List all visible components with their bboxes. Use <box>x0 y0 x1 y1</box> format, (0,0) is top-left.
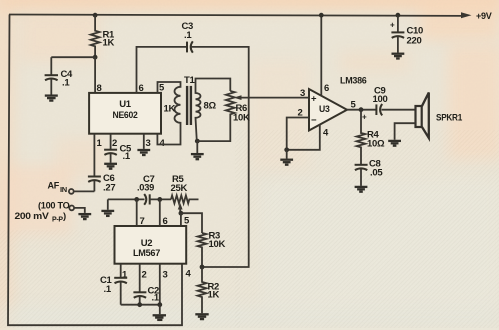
node output/R4 <box>359 107 364 112</box>
IC U2 LM567 <box>115 216 192 281</box>
svg-text:2: 2 <box>112 138 117 149</box>
wire U2 pin 3 down <box>159 264 161 305</box>
node R1/C4/pin8 junction <box>93 55 98 60</box>
ground U1 pin 3 <box>137 150 150 155</box>
node rail/R1 <box>93 13 98 18</box>
svg-text:1K: 1K <box>103 38 115 49</box>
ground U2 pin 3 <box>153 305 166 320</box>
ground C4 <box>45 96 58 101</box>
resistor R2 <box>198 267 220 313</box>
node rail/pin6 <box>319 13 324 18</box>
svg-text:U3: U3 <box>319 104 330 115</box>
svg-text:.1: .1 <box>123 151 131 162</box>
ground U3 <box>280 150 293 165</box>
ground T1 secondary <box>191 141 204 159</box>
svg-text:+: + <box>362 113 367 122</box>
wire U1 pin 3 to ground <box>143 134 145 149</box>
svg-text:P-P: P-P <box>52 217 63 224</box>
wire U3 pin 6 to rail <box>320 15 322 96</box>
node R3/R2/C3 <box>200 265 205 270</box>
wire wiper node to U2 pin 5 <box>180 213 182 226</box>
wire U2 pin 1 to C1 <box>120 264 122 278</box>
ground C5 <box>104 164 117 169</box>
svg-text:.1: .1 <box>184 30 192 41</box>
R5 wiper arrow <box>178 203 183 213</box>
svg-text:1K: 1K <box>208 290 220 301</box>
capacitor C8 <box>355 159 384 186</box>
capacitor C5 <box>104 144 132 163</box>
svg-text:6: 6 <box>139 83 144 94</box>
svg-text:LM386: LM386 <box>340 76 367 87</box>
ground R2 <box>195 314 208 319</box>
svg-text:U1: U1 <box>119 99 132 110</box>
svg-text:8: 8 <box>97 83 102 94</box>
svg-text:6: 6 <box>324 83 329 94</box>
capacitor C10 <box>390 15 423 52</box>
svg-text:−: − <box>311 115 317 126</box>
svg-text:100: 100 <box>373 94 388 105</box>
node U2 pin 6 <box>157 197 162 202</box>
capacitor C4 <box>45 57 73 94</box>
wire U1 pin 1 to C6 <box>93 134 95 176</box>
ground C8 <box>355 187 368 192</box>
svg-text:(100 TO: (100 TO <box>38 201 70 212</box>
svg-text:+9V: +9V <box>476 11 492 22</box>
svg-text:SPKR1: SPKR1 <box>436 113 463 124</box>
AF IN terminal <box>48 181 95 195</box>
svg-text:8Ω: 8Ω <box>204 101 217 112</box>
svg-text:3: 3 <box>146 138 151 149</box>
wire U2 pin 2 to C2 <box>139 264 141 292</box>
transformer T1 core <box>187 86 191 125</box>
svg-text:200 mV: 200 mV <box>15 211 50 222</box>
svg-text:25K: 25K <box>171 183 188 194</box>
IC U1 NE602 <box>89 83 165 150</box>
svg-text:2: 2 <box>142 270 147 281</box>
speaker SPKR1 <box>416 93 463 139</box>
ground input terminal <box>78 214 91 219</box>
resistor R3 <box>198 231 226 268</box>
wire C1/C2/pin3 bottom bus <box>121 304 160 306</box>
ground C10 <box>392 54 405 59</box>
svg-text:T1: T1 <box>184 75 196 86</box>
wire U3 output <box>347 109 376 111</box>
wire junction to C4 <box>51 56 95 58</box>
svg-text:6: 6 <box>163 216 168 227</box>
transformer T1 primary with U1 pins 5 and 4 <box>157 75 195 145</box>
wire U1 pin 2 to C5 <box>110 134 112 150</box>
svg-text:10K: 10K <box>233 113 250 124</box>
svg-text:): ) <box>63 211 66 222</box>
svg-text:10K: 10K <box>209 239 226 250</box>
node rail/C10 <box>396 13 401 18</box>
wire C9 to speaker <box>382 109 416 111</box>
capacitor C1 <box>100 275 127 305</box>
svg-text:.1: .1 <box>62 78 70 89</box>
wire U3 pin 2 to ground run <box>287 118 320 150</box>
svg-text:220: 220 <box>407 36 422 47</box>
capacitor C9 <box>362 86 387 122</box>
svg-text:AF: AF <box>48 181 60 192</box>
wire C7 to R5 <box>149 198 171 200</box>
svg-text:3: 3 <box>163 270 168 281</box>
resistor R1 <box>91 15 115 57</box>
svg-text:10Ω: 10Ω <box>367 139 385 150</box>
svg-text:.05: .05 <box>370 168 383 179</box>
potentiometer R5 <box>171 174 199 203</box>
op-amp U3 LM386 <box>298 76 367 139</box>
capacitor C2 <box>133 286 159 305</box>
node pin2 ground <box>284 147 289 152</box>
wire speaker return to ground <box>395 123 416 140</box>
wire secondary bottom to R6 bottom <box>197 117 230 141</box>
wire U1 pin 6 up to C3 <box>137 47 187 93</box>
transformer T1 secondary <box>196 79 231 142</box>
input level terminal (100 TO 200 mV P-P) <box>15 201 85 224</box>
wire C3 to R3/R2 node <box>191 47 249 267</box>
svg-text:.039: .039 <box>137 183 154 194</box>
svg-text:+: + <box>311 94 317 105</box>
node wiper/pin5/R3 <box>179 211 184 216</box>
node pin 3 bus <box>157 302 162 307</box>
node U2 pin 7 <box>134 197 139 202</box>
wire ground to C7 <box>108 198 145 200</box>
svg-text:1K: 1K <box>164 104 176 115</box>
+9V supply rail <box>9 11 492 22</box>
svg-text:.27: .27 <box>103 183 115 194</box>
potentiometer R6 <box>226 91 250 124</box>
svg-text:7: 7 <box>140 216 145 227</box>
wire R1 junction to U1 pin 8 <box>94 57 96 93</box>
node C2 bus <box>137 302 142 307</box>
capacitor C3 <box>182 21 194 53</box>
wire wiper node to R3 <box>181 213 202 233</box>
node T1 secondary / ground <box>195 139 200 144</box>
svg-text:IN: IN <box>60 185 67 194</box>
svg-text:+: + <box>390 21 395 30</box>
resistor R4 <box>357 110 385 165</box>
ground C7 line <box>101 199 114 216</box>
capacitor C6 <box>88 173 115 194</box>
wire R6 wiper to U3 pin 3 <box>234 95 309 100</box>
svg-text:.1: .1 <box>104 284 112 295</box>
svg-text:.1: .1 <box>152 293 160 304</box>
svg-text:3: 3 <box>300 88 305 99</box>
wire U2 pin 7 <box>136 199 138 226</box>
capacitor C7 <box>137 174 155 205</box>
wire U2 pin 6 <box>159 199 161 226</box>
wire V+ left and bottom to U2 pin 4 <box>8 15 182 326</box>
svg-text:LM567: LM567 <box>133 248 160 259</box>
svg-text:NE602: NE602 <box>113 110 138 121</box>
ground speaker <box>388 141 401 146</box>
